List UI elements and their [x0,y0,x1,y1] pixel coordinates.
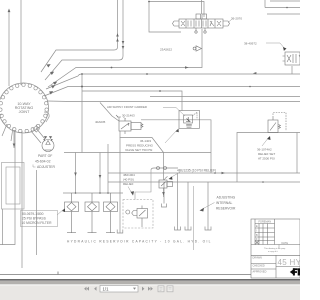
diamond on pump line [33,126,40,133]
toolbar [0,281,300,300]
svg-text:ADJUSTER: ADJUSTER [37,165,55,169]
svg-text:RELIEF: RELIEF [123,182,134,186]
filters manifold [65,193,118,233]
wire vertical left 1 [8,12,10,86]
svg-text:1/1: 1/1 [103,287,110,292]
svg-text:(40 PSI): (40 PSI) [123,178,134,182]
rotating joint label [15,102,34,114]
svg-text:4BU1235 (10 PSI RELIEF): 4BU1235 (10 PSI RELIEF) [177,168,216,172]
rotating joint tab [44,112,49,122]
svg-text:JOINT: JOINT [19,110,30,114]
tank drop short [162,182,167,207]
directional valve bank top [173,14,230,33]
svg-text:45 HY: 45 HY [278,258,301,267]
svg-text:AT 2500 PSI: AT 2500 PSI [258,157,275,161]
wire circle bottom drop 2 [0,130,15,245]
label squiggle 30-21463 [123,117,126,119]
tank mark 2 [185,227,191,231]
check valve on drain [193,46,201,51]
foreman table [255,219,275,245]
wire right valve drop [291,66,293,74]
svg-text:25 PSI BYPASS: 25 PSI BYPASS [22,217,47,221]
wire top right partial [270,0,300,2]
svg-text:PART OF: PART OF [38,154,52,158]
svg-text:APPROVED: APPROVED [253,271,267,274]
wire y96.5 partial [150,96,300,98]
svg-text:DATE: DATE [282,242,289,245]
label pointer 38-40972 [266,43,285,49]
arrows on wires [8,1,288,196]
filter 3 [104,202,118,212]
wire reservoir right edge [193,186,195,250]
svg-text:80-0679-1/800: 80-0679-1/800 [22,212,44,216]
wire drop into header [107,144,109,193]
svg-text:DRAWN: DRAWN [253,256,263,259]
wire manifold header [63,192,123,194]
svg-text:PRESS REDUCING: PRESS REDUCING [126,144,154,148]
wire return y67 [48,29,202,87]
svg-text:INTERNAL: INTERNAL [216,201,232,205]
pointer 40-1235 [170,172,180,178]
title block [251,219,300,278]
wire vertical x82 [81,74,83,153]
wire top feed B elbow [45,0,123,80]
nested box left [2,163,25,210]
wire y152 left manifold line [64,152,211,154]
pointer 36-1403 [165,130,177,143]
wire tank drop 3 [207,182,209,230]
filter label box [21,209,66,227]
filter 1 [65,202,79,212]
svg-text:4BJ1004: 4BJ1004 [123,173,135,177]
reservoir internal valve [126,170,151,227]
tank mark 1 [175,227,181,231]
wire y173 long [108,172,300,174]
wire pump drop 1 [75,153,77,194]
relief valve right (36-1074A2) [268,113,286,133]
wire valve4 feed diagonal [100,103,119,122]
svg-text:45-604-02: 45-604-02 [35,160,51,164]
wire valve4 out [120,131,164,153]
pressure reducing valve 36-1403 [179,111,200,129]
adj reservoir pointer [202,203,215,210]
air pilot valve center (30-21463) [116,115,143,134]
return drop into reservoir [117,138,123,234]
wire y74 long [46,74,300,89]
wire top right h1 [265,0,300,8]
wire y87 long [44,87,300,97]
svg-text:40A035: 40A035 [95,120,106,124]
svg-text:ADJUSTING: ADJUSTING [217,196,236,200]
svg-text:This drawing is the prop: This drawing is the prop [264,247,286,250]
filter 2 [85,202,99,212]
wire circle bottom drop 1 [13,130,15,148]
svg-text:HYDRAULIC RESERVOIR CAPACITY: HYDRAULIC RESERVOIR CAPACITY - 10 GAL. H… [67,240,212,244]
nav buttons [84,287,96,291]
wire tank drop 1 [177,173,179,230]
pointer relief [262,137,269,146]
svg-text:36-1403: 36-1403 [140,139,151,143]
rotating joint big circle [0,83,49,133]
wire circle to pump diag [36,128,45,139]
relief valve 40-1235 [157,167,173,189]
wire valve5 down [163,188,165,197]
wire valve5 vert [163,153,165,181]
rotating joint ports [0,83,48,133]
svg-text:AIR SUPPLY FRONT CARRIER: AIR SUPPLY FRONT CARRIER [107,105,147,109]
wire top frame h [149,2,204,18]
wire left low vertical [2,209,4,245]
tiny text labels [22,17,276,244]
page box [100,285,138,292]
wire vertical left 2 [20,0,22,85]
wire pump drop 2 [99,153,101,194]
wire valve bank top feed [201,0,203,14]
valve right top (cut) [283,52,301,65]
wire valve5 circuit [151,168,178,170]
air supply pointer [163,108,185,117]
svg-text:30-21463: 30-21463 [122,114,135,118]
svg-text:RELIEF SET: RELIEF SET [258,152,275,156]
pump adjuster circle [42,139,54,152]
svg-text:36-1074A2: 36-1074A2 [257,148,272,152]
wire tank drop 2 [187,182,189,230]
svg-text:FOREMAN: FOREMAN [259,221,272,224]
wire top right h2 [267,13,300,15]
label pointer 36-2070 [228,20,232,23]
wire circle bottom drop 3 [36,170,38,255]
toolbar icons [158,286,173,292]
drawing bottom border [0,274,251,276]
wire y103 long [47,100,300,103]
wire top feed A elbow [41,0,118,72]
wire top frame [149,2,181,33]
svg-text:CHECKED: CHECKED [253,264,265,267]
svg-text:23A5622: 23A5622 [160,48,172,52]
svg-text:RESERVOIR: RESERVOIR [216,207,236,211]
svg-text:VALVE SET 750 PSI: VALVE SET 750 PSI [125,148,153,152]
logo [290,268,300,275]
tank mark 3 [205,227,211,231]
svg-text:a copy of it: a copy of it [268,250,278,253]
pointer 40-1004 [128,187,132,194]
svg-text:10 MICRON FILTER: 10 MICRON FILTER [22,221,53,225]
wire rim line lower-left 1 [2,124,7,136]
svg-text:38-40972: 38-40972 [244,42,257,46]
wire rim line lower-left 2 [11,128,13,142]
wire y182 long [108,181,300,183]
wire rim stub left [0,114,2,116]
svg-text:36-2070: 36-2070 [231,17,242,21]
page bottom edge [0,279,300,281]
wire relief box right [237,133,300,183]
wire y91 line [82,91,182,111]
wire press-reduce loop [141,120,211,173]
wire circle to pump diag 2 [31,131,41,143]
internal reservoir dashed box [123,200,153,229]
